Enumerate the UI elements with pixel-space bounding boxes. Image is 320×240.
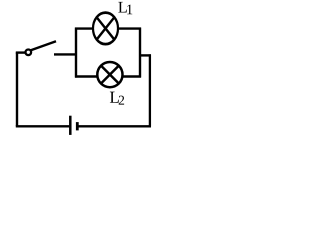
lamp L1 [93,13,118,45]
label L2 [110,92,124,105]
label L1 [118,2,132,14]
wire: parallel box left vertical [75,28,77,78]
wire: top branch left [75,27,94,29]
wire: bottom left [16,125,70,127]
switch S1 pivot [26,50,32,56]
wire: switch stub (corner to pivot) [16,51,26,53]
wire: switch contact to parallel node [54,53,77,55]
wire: left vertical [16,52,18,126]
wire: jog to outer right [139,54,151,56]
wire: bottom branch right [122,75,141,77]
battery B1 short plate (negative) [76,122,79,130]
switch S1 blade (open) [31,41,56,50]
wire: bottom right [79,125,152,127]
wire: right vertical [149,54,151,126]
lamp L2 [97,62,122,87]
wire: bottom branch left [75,75,98,77]
wire: top branch right [118,27,142,29]
wire: parallel box right vertical [139,28,141,78]
battery B1 long plate (positive) [69,116,72,135]
